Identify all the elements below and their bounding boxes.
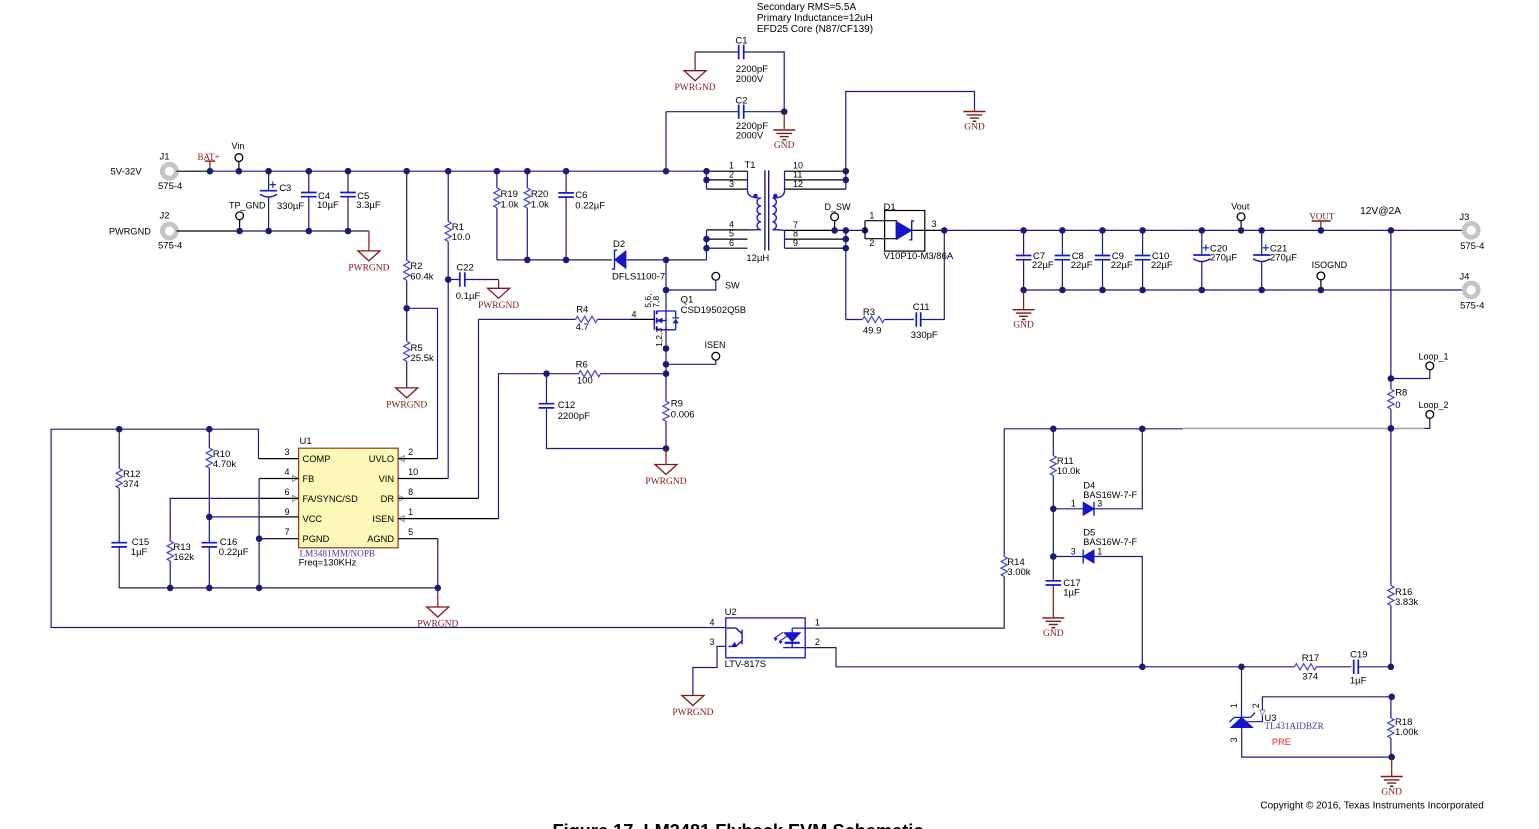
wire PGND pin xyxy=(259,538,299,540)
svg-text:100: 100 xyxy=(577,376,593,387)
svg-text:R4: R4 xyxy=(576,305,588,316)
resistor R11 xyxy=(1052,429,1054,456)
wire ISEN pin xyxy=(398,518,498,520)
svg-text:T1: T1 xyxy=(745,160,756,171)
diode D4 xyxy=(1050,506,1057,513)
ground PWRGND under R9 xyxy=(665,449,667,465)
op-amp U3 shunt regulator xyxy=(1238,664,1245,671)
svg-text:1µF: 1µF xyxy=(1063,587,1080,598)
svg-text:1: 1 xyxy=(1071,499,1076,509)
svg-text:1µF: 1µF xyxy=(1350,676,1367,687)
svg-text:R6: R6 xyxy=(576,359,588,370)
svg-text:7: 7 xyxy=(284,527,289,537)
svg-text:C6: C6 xyxy=(575,190,587,201)
svg-text:25.5k: 25.5k xyxy=(411,353,434,364)
svg-text:Copyright © 2016, Texas Instru: Copyright © 2016, Texas Instruments Inco… xyxy=(1260,800,1483,811)
svg-text:C19: C19 xyxy=(1350,649,1367,660)
wire J2 lead xyxy=(177,230,240,232)
wire VOUT sense tap xyxy=(1390,230,1392,378)
svg-text:5V-32V: 5V-32V xyxy=(111,167,143,178)
svg-text:2200pF: 2200pF xyxy=(558,411,590,422)
core T1 xyxy=(764,170,766,250)
ground GND output xyxy=(1023,290,1025,309)
svg-text:C11: C11 xyxy=(913,302,930,313)
wire VCC pin xyxy=(209,516,258,518)
wire U2 pin3 xyxy=(693,646,726,695)
resistor R5 xyxy=(406,308,408,341)
svg-text:Figure 17. LM3481 Flyback EVM: Figure 17. LM3481 Flyback EVM Schematic xyxy=(553,821,924,829)
resistor R2 xyxy=(406,171,408,260)
wire T1 secondary right bus xyxy=(845,171,847,189)
connector J1 xyxy=(162,164,176,178)
wire secondary pin10 to GND xyxy=(846,92,975,172)
svg-text:PRE: PRE xyxy=(1272,737,1291,747)
svg-text:LTV-817S: LTV-817S xyxy=(725,659,767,670)
svg-text:12V@2A: 12V@2A xyxy=(1360,206,1401,217)
connector J4 xyxy=(1464,283,1478,297)
svg-text:3.00k: 3.00k xyxy=(1007,567,1030,578)
svg-text:575-4: 575-4 xyxy=(1460,300,1484,311)
capacitor C9 xyxy=(1102,230,1104,255)
svg-text:R8: R8 xyxy=(1395,388,1407,399)
node T1 secondary polarity dot xyxy=(773,194,777,198)
wire COMP net xyxy=(259,458,299,460)
svg-text:2000V: 2000V xyxy=(736,74,764,85)
svg-text:VOUT: VOUT xyxy=(1309,211,1334,221)
svg-text:R19: R19 xyxy=(501,189,518,200)
resistor R1 xyxy=(447,171,449,221)
diode D2 xyxy=(615,251,626,269)
capacitor C5 xyxy=(347,171,349,192)
svg-text:Secondary RMS=5.5A: Secondary RMS=5.5A xyxy=(757,2,857,13)
svg-text:Q1: Q1 xyxy=(681,294,694,305)
svg-text:PWRGND: PWRGND xyxy=(417,620,458,630)
svg-text:9: 9 xyxy=(284,507,289,517)
test point ISEN xyxy=(666,361,716,365)
ground GND top right xyxy=(974,108,976,112)
svg-text:R17: R17 xyxy=(1302,653,1319,664)
ground PWRGND under U1 xyxy=(437,588,439,607)
svg-text:VIN: VIN xyxy=(379,474,395,484)
svg-text:0.22µF: 0.22µF xyxy=(575,201,605,212)
svg-text:270µF: 270µF xyxy=(1270,253,1297,264)
svg-text:6: 6 xyxy=(284,487,289,497)
wire AGND pin xyxy=(398,538,438,540)
svg-text:1.00k: 1.00k xyxy=(1395,727,1418,738)
op-amp U2 optocoupler xyxy=(726,618,805,658)
ground PWRGND under R5 xyxy=(396,388,418,398)
svg-text:575-4: 575-4 xyxy=(158,181,182,192)
wire VIN pin to R1 xyxy=(398,478,448,480)
svg-text:Primary Inductance=12uH: Primary Inductance=12uH xyxy=(757,13,873,24)
svg-text:7,8: 7,8 xyxy=(651,296,661,308)
test point Vout xyxy=(1240,221,1242,230)
svg-text:374: 374 xyxy=(123,479,139,490)
svg-text:PWRGND: PWRGND xyxy=(109,227,151,237)
diode D5 xyxy=(1050,553,1057,560)
svg-text:6: 6 xyxy=(729,238,734,248)
svg-text:BAT+: BAT+ xyxy=(198,152,220,162)
capacitor C1 xyxy=(695,51,738,53)
svg-text:Freq=130KHz: Freq=130KHz xyxy=(299,557,357,567)
svg-text:49.9: 49.9 xyxy=(863,326,882,337)
svg-text:1: 1 xyxy=(408,507,413,517)
svg-text:22µF: 22µF xyxy=(1151,260,1173,271)
test point D_SW xyxy=(834,221,836,230)
svg-text:2: 2 xyxy=(1251,703,1261,708)
wire C2 to VIN rail xyxy=(665,112,667,172)
svg-text:1: 1 xyxy=(869,211,874,221)
capacitor C22 xyxy=(445,276,452,283)
svg-text:12µH: 12µH xyxy=(746,253,769,264)
resistor R18 xyxy=(1390,697,1392,718)
wire ISEN to U1 xyxy=(499,374,547,519)
winding T1 secondary xyxy=(772,191,784,230)
svg-text:0: 0 xyxy=(1395,400,1400,411)
svg-text:3: 3 xyxy=(709,637,714,647)
capacitor C15 xyxy=(111,543,127,547)
ground PWRGND input xyxy=(368,231,370,251)
svg-text:GND: GND xyxy=(774,141,795,151)
svg-text:3.83k: 3.83k xyxy=(1395,597,1418,608)
capacitor C20 xyxy=(1201,230,1203,254)
ground GND under C1/C2 xyxy=(783,112,785,129)
wire T1 secondary top pins xyxy=(785,170,846,172)
capacitor C7 xyxy=(1023,230,1025,255)
svg-text:TP_GND: TP_GND xyxy=(229,201,266,211)
svg-text:SW: SW xyxy=(725,280,740,290)
svg-text:EFD25 Core (N87/CF139): EFD25 Core (N87/CF139) xyxy=(757,24,873,35)
ground PWRGND under C1 xyxy=(694,52,696,71)
svg-text:1: 1 xyxy=(1229,703,1239,708)
svg-text:C2: C2 xyxy=(735,96,747,107)
wire T1 secondary bottom pins xyxy=(785,229,846,231)
svg-text:ISEN: ISEN xyxy=(372,514,394,524)
capacitor C12 xyxy=(546,374,548,404)
svg-text:10µF: 10µF xyxy=(317,200,339,211)
resistor R9 xyxy=(663,401,669,421)
svg-text:3: 3 xyxy=(1097,499,1102,509)
wire AGND rail xyxy=(119,587,438,589)
svg-text:J2: J2 xyxy=(160,211,170,222)
svg-text:C12: C12 xyxy=(558,400,575,411)
svg-text:PWRGND: PWRGND xyxy=(348,263,389,273)
svg-text:22µF: 22µF xyxy=(1032,260,1054,271)
resistor R10 xyxy=(208,429,210,448)
svg-text:4: 4 xyxy=(284,467,289,477)
net BAT+ xyxy=(205,160,215,162)
wire J1 lead xyxy=(177,170,210,172)
svg-text:0.006: 0.006 xyxy=(671,410,695,421)
svg-text:R3: R3 xyxy=(863,307,875,318)
wire T1 pin7 to D1 xyxy=(846,229,865,231)
svg-text:J1: J1 xyxy=(160,151,170,162)
svg-text:GND: GND xyxy=(1043,629,1064,639)
svg-text:FA/SYNC/SD: FA/SYNC/SD xyxy=(303,494,359,504)
svg-text:D_SW: D_SW xyxy=(825,202,852,212)
wire PWRGND lower rail xyxy=(240,230,369,232)
wire FB to ground xyxy=(259,478,299,480)
connector J3 xyxy=(1464,223,1478,237)
test point TP_GND xyxy=(239,220,241,231)
resistor R14 xyxy=(1003,429,1005,557)
wire D2 node to T1 pins 4-6 xyxy=(666,259,707,261)
svg-text:PWRGND: PWRGND xyxy=(645,477,686,487)
ground PWRGND under C22 xyxy=(498,280,500,289)
svg-text:575-4: 575-4 xyxy=(158,241,182,252)
resistor R17 xyxy=(1295,664,1317,670)
connector J2 xyxy=(162,224,176,238)
svg-text:GND: GND xyxy=(1381,788,1402,798)
svg-text:R20: R20 xyxy=(531,189,548,200)
svg-text:GND: GND xyxy=(1013,321,1034,331)
svg-text:DFLS1100-7: DFLS1100-7 xyxy=(612,272,665,283)
capacitor C17 xyxy=(1052,557,1054,581)
svg-text:330µF: 330µF xyxy=(277,201,304,212)
ground GND under C17 xyxy=(1052,585,1054,618)
svg-text:U1: U1 xyxy=(300,436,312,447)
svg-text:J3: J3 xyxy=(1459,212,1469,223)
svg-text:22µF: 22µF xyxy=(1111,260,1133,271)
resistor R20 xyxy=(526,171,528,188)
wire VOUT rail xyxy=(944,229,1462,231)
svg-text:3: 3 xyxy=(932,219,937,229)
svg-text:D2: D2 xyxy=(613,239,625,250)
svg-text:1: 1 xyxy=(815,617,820,627)
capacitor C10 xyxy=(1142,230,1144,255)
svg-text:1,2,3: 1,2,3 xyxy=(654,328,664,347)
svg-text:1: 1 xyxy=(1097,546,1102,556)
svg-text:330pF: 330pF xyxy=(911,330,938,341)
svg-text:PGND: PGND xyxy=(303,534,330,544)
test point Vin xyxy=(238,162,240,172)
svg-text:V10P10-M3/86A: V10P10-M3/86A xyxy=(884,251,954,262)
wire UVLO pin xyxy=(398,458,437,460)
svg-text:575-4: 575-4 xyxy=(1460,241,1484,252)
svg-text:Loop_2: Loop_2 xyxy=(1419,400,1449,410)
svg-text:1µF: 1µF xyxy=(131,547,148,558)
svg-text:3: 3 xyxy=(284,447,289,457)
svg-text:4: 4 xyxy=(632,310,637,320)
svg-text:PWRGND: PWRGND xyxy=(386,400,427,410)
resistor R8 xyxy=(1390,379,1392,390)
svg-text:C22: C22 xyxy=(456,262,473,273)
svg-text:3: 3 xyxy=(1229,737,1239,742)
svg-text:0.1µF: 0.1µF xyxy=(456,291,481,302)
svg-text:60.4k: 60.4k xyxy=(410,271,433,282)
wire T1 primary top bus xyxy=(706,171,708,189)
wire U3 ref pin2 xyxy=(1247,715,1262,722)
svg-text:J4: J4 xyxy=(1459,272,1469,283)
svg-text:ISOGND: ISOGND xyxy=(1312,260,1348,270)
svg-text:COMP: COMP xyxy=(303,454,331,464)
svg-text:9: 9 xyxy=(793,238,798,248)
ground PWRGND under U2 xyxy=(682,696,704,706)
capacitor C6 xyxy=(565,171,567,193)
svg-text:4.70k: 4.70k xyxy=(213,459,236,470)
svg-text:ISEN: ISEN xyxy=(705,340,726,350)
svg-text:R9: R9 xyxy=(671,399,683,410)
resistor R13 xyxy=(259,497,299,499)
svg-text:DR: DR xyxy=(381,494,395,504)
svg-text:2: 2 xyxy=(408,447,413,457)
svg-text:U2: U2 xyxy=(725,607,737,618)
resistor R16 xyxy=(1390,428,1392,585)
svg-text:VCC: VCC xyxy=(303,514,323,524)
capacitor C19 xyxy=(1354,660,1359,674)
svg-text:Loop_1: Loop_1 xyxy=(1419,352,1449,362)
svg-text:D1: D1 xyxy=(884,202,896,213)
svg-text:3: 3 xyxy=(1071,546,1076,556)
svg-text:C1: C1 xyxy=(735,35,747,46)
capacitor C4 xyxy=(308,171,310,192)
svg-text:10.0k: 10.0k xyxy=(1057,466,1080,477)
test point Loop_2 xyxy=(1425,419,1430,429)
svg-text:4: 4 xyxy=(709,617,714,627)
svg-text:4.7: 4.7 xyxy=(576,322,589,333)
svg-text:PWRGND: PWRGND xyxy=(672,708,713,718)
svg-text:PWRGND: PWRGND xyxy=(675,83,716,93)
capacitor C8 xyxy=(1061,230,1063,255)
wire DR pin to R4 xyxy=(398,497,478,499)
wire U2 pin2 to feedback xyxy=(805,648,1294,667)
resistor R6 xyxy=(547,373,579,375)
svg-text:C3: C3 xyxy=(279,183,291,194)
svg-text:TL431AIDBZR: TL431AIDBZR xyxy=(1265,721,1325,731)
capacitor C11 xyxy=(916,312,920,326)
svg-text:BAS16W-7-F: BAS16W-7-F xyxy=(1083,537,1137,547)
svg-text:UVLO: UVLO xyxy=(369,454,394,464)
svg-text:2: 2 xyxy=(869,238,874,248)
svg-text:8: 8 xyxy=(408,487,413,497)
winding T1 primary xyxy=(747,171,749,191)
wire ISOGND rail xyxy=(1024,289,1462,291)
svg-text:FB: FB xyxy=(303,474,315,484)
wire R19/R20/C6 bottom bus xyxy=(497,259,612,261)
capacitor C3 xyxy=(268,171,270,190)
test point ISOGND xyxy=(1320,280,1322,290)
svg-text:22µF: 22µF xyxy=(1071,260,1093,271)
svg-text:3.3µF: 3.3µF xyxy=(356,200,381,211)
transistor Q1 xyxy=(665,290,667,311)
wire R2/R5 junction to UVLO xyxy=(407,308,438,458)
svg-text:GND: GND xyxy=(964,123,985,133)
svg-text:AGND: AGND xyxy=(367,534,394,544)
test point SW xyxy=(666,281,716,291)
svg-text:374: 374 xyxy=(1302,671,1318,682)
svg-text:PWRGND: PWRGND xyxy=(478,301,519,311)
capacitor C16 xyxy=(202,543,218,547)
resistor R12 xyxy=(118,429,120,468)
resistor R3 xyxy=(846,319,863,321)
node Loop_2 junction xyxy=(1388,425,1395,432)
wire T1 primary bottom pins xyxy=(707,229,748,231)
net VOUT xyxy=(1312,220,1331,222)
wire Q1 source node xyxy=(665,330,667,401)
svg-text:0.22µF: 0.22µF xyxy=(219,547,249,558)
resistor R19 xyxy=(496,171,498,188)
svg-text:5: 5 xyxy=(408,527,413,537)
test point Loop_1 xyxy=(1391,370,1430,378)
capacitor C21 xyxy=(1261,230,1263,254)
svg-text:10: 10 xyxy=(408,467,418,477)
svg-text:270µF: 270µF xyxy=(1210,253,1237,264)
resistor R4 xyxy=(479,318,576,320)
svg-text:3: 3 xyxy=(729,179,734,189)
ground GND feedback xyxy=(1391,757,1393,776)
capacitor C2 xyxy=(666,111,739,113)
svg-text:Vout: Vout xyxy=(1231,202,1250,212)
svg-text:10.0: 10.0 xyxy=(452,232,471,243)
wire switch node xyxy=(665,260,667,290)
wire secondary right bus to R3 xyxy=(845,230,847,319)
svg-text:2: 2 xyxy=(815,637,820,647)
svg-text:BAS16W-7-F: BAS16W-7-F xyxy=(1083,490,1137,500)
svg-text:1.0k: 1.0k xyxy=(501,200,519,211)
diode D1 xyxy=(885,211,925,252)
svg-text:2000V: 2000V xyxy=(736,131,764,142)
svg-text:Vin: Vin xyxy=(232,141,245,151)
node T1 primary polarity dot xyxy=(753,194,757,198)
svg-text:12: 12 xyxy=(793,179,803,189)
svg-text:1.0k: 1.0k xyxy=(531,200,549,211)
op-amp U1 xyxy=(299,448,399,548)
wire bias rail gray segment xyxy=(1183,427,1425,429)
wire VIN top rail xyxy=(210,170,707,172)
svg-text:162k: 162k xyxy=(173,552,194,563)
svg-text:CSD19502Q5B: CSD19502Q5B xyxy=(681,305,746,316)
wire bias rail xyxy=(1004,428,1182,430)
